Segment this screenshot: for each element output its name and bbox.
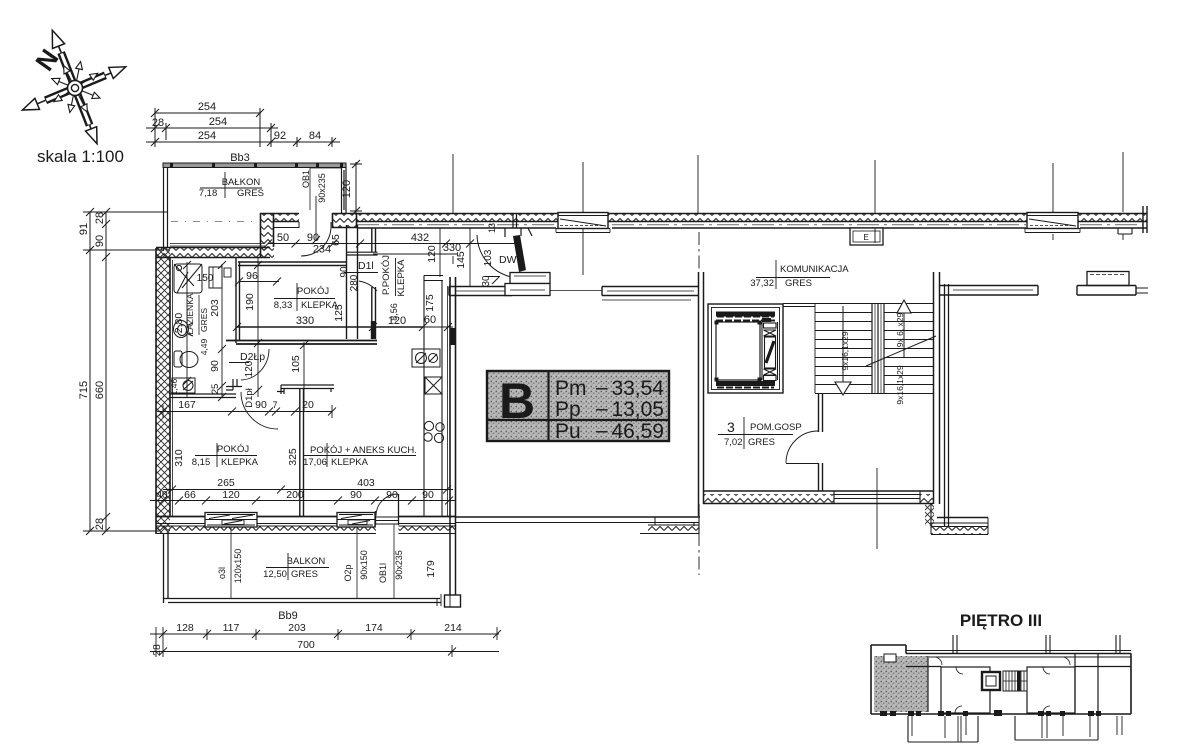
pom.gosp east wall with door (819, 393, 823, 491)
svg-text:POM.GOSP: POM.GOSP (750, 422, 802, 433)
stairs left flight treads (815, 304, 933, 394)
svg-text:103: 103 (483, 249, 494, 266)
svg-text:28: 28 (151, 644, 163, 656)
balcony door swing (376, 494, 398, 516)
svg-text:37,32: 37,32 (750, 278, 774, 289)
svg-text:12,50: 12,50 (263, 569, 287, 580)
dim line 40 66 120 200 90 90 90 (150, 497, 456, 505)
svg-text:2,80: 2,80 (173, 313, 185, 334)
door D1p swing (241, 392, 278, 429)
svg-text:skala 1:100: skala 1:100 (37, 147, 124, 166)
top dimension chain row 2: 28 254 (146, 123, 278, 140)
svg-text:90x235: 90x235 (317, 173, 327, 203)
svg-text:POKÓJ + ANEKS KUCH.: POKÓJ + ANEKS KUCH. (310, 445, 417, 456)
dim chain 50 90 / 432 (264, 240, 521, 255)
svg-text:120: 120 (244, 360, 255, 377)
dim vline x304 (300, 341, 308, 411)
svg-text:9x16,1x29: 9x16,1x29 (840, 331, 850, 370)
grid line x583 through corridor (582, 228, 584, 275)
svg-text:203: 203 (288, 622, 306, 634)
svg-text:OB1: OB1 (301, 170, 311, 188)
dim line below stairs (876, 468, 878, 549)
neighbour west wall (945, 284, 949, 527)
corridor south wall east piece (940, 286, 1038, 296)
key plan top ticks (953, 635, 1120, 653)
svg-text:90: 90 (209, 360, 221, 372)
svg-text:90: 90 (350, 489, 362, 501)
dim vline x187 (2,80) (183, 261, 191, 397)
svg-text:90: 90 (255, 399, 267, 411)
svg-text:28: 28 (152, 117, 164, 129)
svg-text:120x150: 120x150 (233, 549, 243, 584)
entry door DW leaf (black) (513, 235, 526, 272)
dim vline x258 (190) (254, 258, 262, 397)
svg-text:310: 310 (173, 449, 185, 467)
corridor south wall middle piece (602, 287, 699, 296)
svg-text:150: 150 (197, 273, 214, 284)
key plan lift symbol (982, 672, 1000, 690)
window OB1 extension line (310, 168, 341, 210)
svg-text:90x235: 90x235 (394, 550, 404, 580)
svg-text:203: 203 (209, 299, 221, 317)
svg-text:90: 90 (307, 232, 319, 244)
svg-text:DW: DW (499, 254, 517, 266)
bottom dim 28 / 700 (150, 627, 499, 657)
south window w4 (337, 513, 375, 528)
door D1l swing (359, 281, 377, 291)
entry door DW swing (477, 235, 521, 278)
svg-text:66: 66 (184, 489, 196, 501)
svg-text:200: 200 (286, 489, 304, 501)
dim extension verticals at entry (440, 228, 470, 287)
dim line 167 90 7 20 (157, 405, 336, 418)
balcony Bb9 bottom wall (163, 599, 441, 603)
footing below staircase right (937, 517, 988, 519)
svg-text:92: 92 (274, 130, 286, 142)
svg-text:120: 120 (341, 180, 353, 198)
svg-text:POKÓJ: POKÓJ (297, 286, 329, 297)
grid extension line above wall x698 (697, 155, 699, 213)
svg-text:1,46: 1,46 (169, 378, 179, 395)
svg-text:BAŁKON: BAŁKON (222, 177, 261, 188)
svg-text:Pu: Pu (555, 420, 581, 443)
svg-text:25: 25 (210, 384, 221, 395)
svg-text:46,59: 46,59 (611, 420, 664, 443)
lift shaft top bars (716, 312, 775, 317)
compass main shaft N-S (61, 53, 90, 126)
staircase block west wall (699, 272, 704, 516)
apartment east wall extension to balcony (450, 517, 456, 597)
svg-text:96: 96 (246, 270, 258, 282)
svg-text:8,33: 8,33 (274, 300, 293, 311)
svg-text:PIĘTRO III: PIĘTRO III (960, 611, 1042, 630)
lift shaft bottom bars (716, 381, 775, 386)
bathroom south wall (170, 394, 236, 398)
svg-text:120: 120 (388, 315, 406, 327)
svg-text:403: 403 (357, 477, 375, 489)
neighbour wall stub east (1087, 272, 1129, 286)
svg-text:33,54: 33,54 (611, 377, 664, 400)
hallway step wall below D2L (226, 379, 242, 390)
svg-text:145: 145 (455, 251, 467, 269)
footing below staircase left (694, 504, 699, 534)
svg-text:167: 167 (178, 399, 196, 411)
svg-text:190: 190 (244, 293, 256, 311)
svg-text:660: 660 (94, 381, 106, 399)
svg-text:KLEPKA: KLEPKA (396, 259, 407, 297)
svg-text:330: 330 (296, 315, 314, 327)
key plan rooms (906, 654, 1131, 715)
bathroom washbasin (174, 321, 194, 338)
key plan bottom ticks (880, 710, 1101, 716)
svg-text:ŁAZIENKA: ŁAZIENKA (185, 293, 195, 334)
window W2 in corridor wall (1027, 213, 1078, 229)
compass rose (22, 30, 125, 144)
bathroom toilet (174, 351, 198, 368)
south window w3 (205, 513, 257, 528)
wall end cap right (1143, 206, 1147, 233)
apartment outer west wall (hatched) (156, 248, 170, 534)
top dimension chain row 1: 254 (151, 108, 332, 147)
svg-text:700: 700 (297, 639, 315, 651)
svg-text:GRES: GRES (199, 308, 209, 332)
svg-text:13: 13 (487, 223, 497, 233)
svg-text:7: 7 (272, 400, 277, 410)
partition between rooms (300, 388, 304, 516)
svg-text:–: – (596, 376, 608, 399)
svg-text:Bb9: Bb9 (278, 610, 298, 622)
svg-text:432: 432 (411, 232, 429, 244)
compass hub (68, 81, 83, 96)
pokoj 8,33 north wall (238, 262, 346, 266)
key plan stairs symbol (1003, 671, 1027, 691)
pokoj 8,33 south wall (226, 341, 377, 345)
svg-text:KLEPKA: KLEPKA (331, 457, 369, 468)
svg-text:105: 105 (290, 355, 302, 373)
svg-text:175: 175 (424, 294, 436, 312)
key plan door arcs (934, 657, 1070, 713)
stair up arrow (897, 300, 911, 313)
pillar at door DW (510, 273, 550, 284)
stair break line (866, 336, 936, 366)
key plan apartment B highlighted (874, 656, 928, 712)
dark bar on east wall (450, 328, 456, 345)
svg-text:P.POKÓJ: P.POKÓJ (381, 255, 392, 295)
grid extension line above wall x1123 (1122, 152, 1124, 240)
balcony door opening (376, 511, 399, 534)
wall pair right of pokoj (347, 225, 358, 339)
svg-text:BALKON: BALKON (287, 556, 326, 567)
bathroom shower (174, 264, 202, 293)
svg-text:8,15: 8,15 (192, 457, 211, 468)
area table B (487, 371, 669, 443)
balcony Bb3 right wall with window OB1 (342, 167, 347, 213)
apartment south wall (156, 516, 456, 518)
door opening with swing arc (kitchen door from balcony zone) (301, 228, 331, 256)
svg-text:40: 40 (156, 490, 168, 501)
svg-text:90x150: 90x150 (359, 550, 369, 580)
stairs upper boundary (783, 304, 933, 307)
svg-text:254: 254 (209, 116, 227, 128)
key plan top wall double (906, 651, 1131, 658)
dim vline x222 (203/90/25) (218, 261, 226, 401)
apartment east wall (450, 277, 456, 517)
svg-text:–: – (596, 397, 608, 420)
svg-text:9x 6, x29: 9x 6, x29 (895, 312, 905, 347)
svg-text:POKÓJ: POKÓJ (217, 444, 249, 455)
svg-text:GRES: GRES (748, 437, 775, 448)
svg-text:7,02: 7,02 (724, 437, 743, 448)
dim line 265 / 403 (163, 486, 453, 494)
svg-text:KLEPKA: KLEPKA (221, 457, 259, 468)
wall block x332-357 (hatched) (332, 213, 357, 228)
svg-text:–: – (596, 419, 608, 442)
wall seam at x514 (513, 213, 517, 228)
compass minor arrows (70, 62, 81, 113)
kitchen sink (425, 377, 442, 394)
hall wall piece above pokoj partition (277, 385, 334, 394)
lintel over D1l (346, 252, 378, 255)
svg-text:GRES: GRES (291, 569, 318, 580)
electrical box E (850, 228, 883, 245)
stairs right flight treads (884, 313, 933, 385)
p.pokoj west wall (372, 228, 376, 339)
svg-text:265: 265 (217, 477, 235, 489)
svg-text:234: 234 (313, 244, 331, 256)
east wall foot (445, 595, 461, 607)
svg-text:GRES: GRES (785, 278, 812, 289)
svg-text:128: 128 (176, 622, 194, 634)
stair down arrow (842, 306, 844, 382)
lift car (716, 322, 760, 380)
svg-text:Pp: Pp (555, 398, 581, 421)
key plan lower terraces (908, 716, 978, 742)
svg-text:84: 84 (309, 130, 321, 142)
svg-text:7,18: 7,18 (199, 188, 218, 199)
lift shaft (708, 304, 783, 393)
wall step up at x=262 (hatched) (260, 213, 274, 258)
key plan hanging lines (912, 716, 1122, 742)
grid extension line above wall x453 (452, 154, 454, 213)
compass main shaft E-W (46, 75, 106, 100)
svg-text:179: 179 (425, 560, 437, 578)
hatched footing left of staircase (648, 525, 699, 534)
svg-text:715: 715 (78, 381, 90, 399)
window extension hairlines to balcony (231, 524, 394, 598)
kitchen washer box (412, 349, 440, 367)
small stub below wall right (1118, 228, 1132, 234)
svg-text:90: 90 (94, 235, 106, 247)
svg-text:o3l: o3l (217, 567, 227, 579)
corridor south wall west piece (449, 287, 512, 296)
staircase block south wall (703, 490, 933, 492)
dim 96 (235, 278, 281, 286)
svg-text:28: 28 (94, 212, 106, 224)
svg-text:9x16,1x29: 9x16,1x29 (895, 365, 905, 404)
svg-text:Pm: Pm (555, 377, 587, 400)
grid extension line above wall x1053 (1052, 163, 1054, 240)
balcony Bb9 left wall (164, 534, 169, 603)
svg-text:90: 90 (422, 489, 434, 501)
svg-text:3: 3 (727, 419, 735, 435)
svg-text:B: B (499, 373, 535, 429)
svg-text:KLEPKA: KLEPKA (301, 300, 339, 311)
stair stringer (872, 304, 884, 394)
balcony Bb3 top wall (163, 163, 346, 168)
svg-text:117: 117 (223, 622, 240, 634)
top dimension chain row 3: 254 92 84 (146, 138, 340, 146)
svg-text:O2p: O2p (343, 564, 353, 581)
svg-text:E: E (863, 233, 868, 242)
bathroom cabinet (209, 267, 222, 288)
dashed line across balcony (171, 221, 258, 223)
bottom dim chain 128 117 203 174 214 (150, 627, 501, 657)
svg-text:280: 280 (349, 274, 360, 291)
kitchen counter top cap (424, 276, 443, 281)
svg-text:Bb3: Bb3 (230, 152, 250, 164)
svg-text:KOMUNIKACJA: KOMUNIKACJA (780, 264, 849, 275)
building south edge between apartment and staircase (456, 516, 700, 518)
lift door/counterweight column (762, 322, 778, 381)
key plan outline (871, 645, 1131, 714)
left dimension column line B (28 / 90 / 660 / 28) (102, 208, 110, 535)
window in staircase south wall (834, 491, 920, 504)
svg-text:13,05: 13,05 (611, 398, 664, 421)
svg-text:17,06: 17,06 (303, 457, 327, 468)
grid extension line above wall x583 (582, 162, 584, 213)
svg-text:50: 50 (277, 232, 289, 244)
svg-text:254: 254 (198, 101, 216, 113)
pom.gosp door swing (786, 431, 818, 463)
bathroom/pokoj shared wall (236, 258, 240, 343)
apartment north wall left section (hatched) (156, 247, 270, 258)
svg-text:214: 214 (444, 622, 462, 634)
left dimension column line A (91 / 715) (83, 208, 168, 535)
svg-text:325: 325 (287, 448, 299, 466)
extension line x316 (312, 196, 320, 244)
svg-text:120: 120 (426, 245, 438, 263)
dim line 330/120/60 (233, 323, 453, 331)
kitchen stove 4 burners (424, 420, 444, 443)
north wall segment x270-299 (hatched) (260, 213, 299, 222)
kitchen counter lines (424, 281, 442, 517)
svg-text:60: 60 (424, 314, 436, 326)
bathroom lower cabinet with symbol (172, 378, 195, 393)
svg-text:GRES: GRES (237, 188, 264, 199)
svg-text:OB1l: OB1l (378, 563, 388, 583)
long corridor north wall x357-1147 (357, 214, 1147, 221)
svg-text:91: 91 (78, 223, 90, 235)
staircase block east wall (934, 272, 940, 504)
svg-text:D1l: D1l (358, 260, 374, 272)
grid extension line above wall x875 (874, 160, 876, 243)
window W1 in corridor wall (558, 213, 608, 229)
svg-text:D1pł: D1pł (244, 387, 255, 407)
svg-text:20: 20 (302, 399, 314, 411)
dim 120 vertical at balcony right (350, 160, 362, 215)
svg-text:254: 254 (198, 130, 216, 142)
svg-text:28: 28 (94, 518, 106, 530)
grid line through staircase (dash-dot) (698, 232, 700, 575)
svg-text:120: 120 (222, 489, 240, 501)
balcony Bb3 left wall (164, 167, 168, 251)
svg-text:4,49: 4,49 (199, 338, 209, 355)
svg-text:174: 174 (365, 622, 383, 634)
